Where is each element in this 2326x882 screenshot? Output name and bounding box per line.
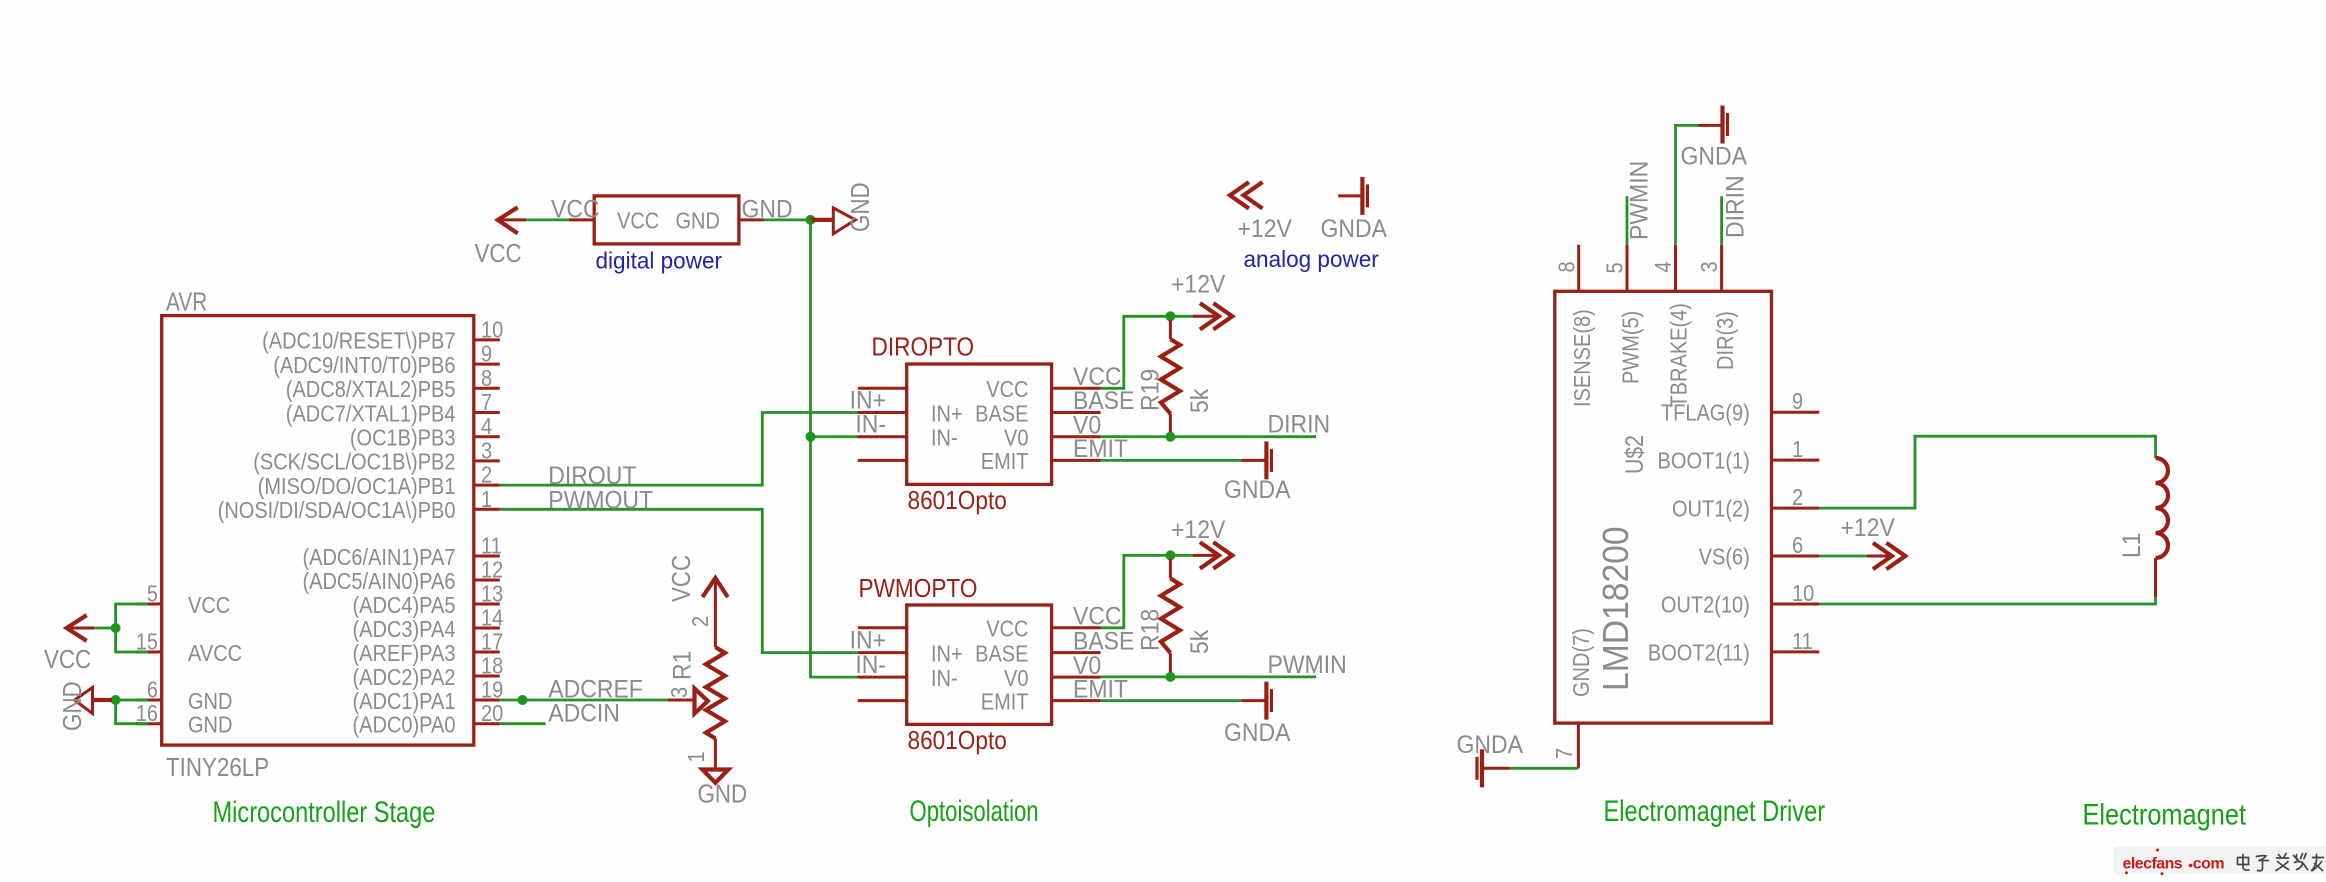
svg-text:(OC1B)PB3: (OC1B)PB3 <box>350 424 456 451</box>
svg-text:Microcontroller Stage: Microcontroller Stage <box>213 795 436 828</box>
svg-text:IN-: IN- <box>931 424 958 451</box>
svg-text:VCC: VCC <box>617 207 659 234</box>
svg-text:+12V: +12V <box>1238 215 1292 243</box>
svg-text:2: 2 <box>686 616 713 627</box>
svg-text:PWMIN: PWMIN <box>1268 651 1347 679</box>
svg-text:U$2: U$2 <box>1621 435 1649 474</box>
svg-text:GND: GND <box>698 780 748 809</box>
supply arrow +12V at PWMOPTO <box>1193 542 1232 568</box>
svg-text:(AREF)PA3: (AREF)PA3 <box>353 639 456 666</box>
wire GND from digital power <box>764 218 811 221</box>
U1 right pin stubs PA7..PA0 <box>474 556 500 724</box>
L1 bottom lead <box>2154 558 2157 597</box>
svg-text:com: com <box>2193 856 2225 873</box>
wire DIROPTO EMIT to GNDA <box>1101 459 1242 462</box>
svg-text:IN+: IN+ <box>931 400 963 427</box>
svg-text:R1: R1 <box>669 651 697 680</box>
digital power right pin stub <box>739 218 764 221</box>
svg-text:TBRAKE(4): TBRAKE(4) <box>1665 303 1692 407</box>
svg-text:EMIT: EMIT <box>981 688 1029 715</box>
R1 wiper arrow <box>695 689 708 714</box>
wire OUT2 to L1 bottom <box>1819 597 2155 604</box>
junction dot R19 bottom <box>1165 432 1175 442</box>
digital power left pin stub <box>569 218 594 221</box>
svg-text:+12V: +12V <box>1841 514 1895 542</box>
svg-text:14: 14 <box>481 604 503 631</box>
ground symbol GNDA top <box>1699 106 1728 144</box>
watermark logo antenna dots <box>2125 849 2164 876</box>
svg-text:Electromagnet: Electromagnet <box>2083 798 2247 831</box>
svg-text:9: 9 <box>481 340 492 367</box>
svg-text:GND: GND <box>188 711 232 738</box>
PWMOPTO right pin stubs <box>1052 628 1101 701</box>
svg-text:GNDA: GNDA <box>1457 731 1523 759</box>
supply arrow +12V at VS <box>1867 543 1905 569</box>
wire VCC to digital power <box>525 218 569 221</box>
wire DIRIN to pin 3 <box>1720 196 1723 245</box>
svg-text:6: 6 <box>1792 532 1803 559</box>
wire DIROUT net <box>500 413 858 486</box>
svg-text:DIRIN: DIRIN <box>1722 175 1750 238</box>
junction dot VCC bracket <box>111 623 121 633</box>
svg-text:3: 3 <box>666 687 693 698</box>
svg-text:IN+: IN+ <box>931 640 963 667</box>
svg-text:DIR(3): DIR(3) <box>1712 311 1739 370</box>
supply arrow VCC top <box>498 207 526 233</box>
svg-text:8601Opto: 8601Opto <box>908 487 1007 516</box>
wire VS to +12V <box>1819 555 1867 558</box>
svg-text:11: 11 <box>1792 628 1813 655</box>
svg-text:EMIT: EMIT <box>981 448 1029 475</box>
IC U$2 LMD18200 body <box>1555 291 1772 723</box>
svg-text:4: 4 <box>481 413 492 440</box>
PWMOPTO left pin stubs <box>858 628 907 701</box>
resistor R19 <box>1169 320 1172 339</box>
LMD right pin stubs <box>1772 412 1820 652</box>
wire GND7 to GNDA <box>1510 767 1578 770</box>
svg-text:4: 4 <box>1650 261 1677 272</box>
svg-text:VCC: VCC <box>986 615 1028 642</box>
svg-text:(ADC5/AIN0)PA6: (ADC5/AIN0)PA6 <box>302 567 455 594</box>
wire GND bracket pins 6,16 <box>116 700 148 724</box>
svg-text:(ADC0)PA0: (ADC0)PA0 <box>352 711 455 738</box>
svg-text:6: 6 <box>147 676 158 703</box>
svg-text:1: 1 <box>1792 436 1803 463</box>
ground symbol GNDA analog power <box>1338 177 1367 215</box>
svg-text:PWMOUT: PWMOUT <box>548 487 653 515</box>
svg-text:VCC: VCC <box>986 376 1028 403</box>
junction dot DIROPTO IN- branch <box>806 432 816 442</box>
supply arrow +12V analog power <box>1230 182 1263 208</box>
svg-text:BASE: BASE <box>975 400 1028 427</box>
R1 pin 3 stub <box>668 699 695 702</box>
svg-text:(SCK/SCL/OC1B\)PB2: (SCK/SCL/OC1B\)PB2 <box>253 448 455 475</box>
svg-text:DIRIN: DIRIN <box>1268 411 1331 439</box>
svg-text:OUT2(10): OUT2(10) <box>1661 591 1750 618</box>
svg-text:3: 3 <box>1696 261 1723 272</box>
svg-text:ISENSE(8): ISENSE(8) <box>1569 309 1596 407</box>
svg-text:7: 7 <box>1551 748 1578 759</box>
junction dot R19 top <box>1165 311 1175 321</box>
junction dot R18 bottom <box>1165 672 1175 682</box>
watermark elecfans.com logo <box>2123 856 2225 873</box>
resistor R18 <box>1169 559 1172 578</box>
U1 right pin stubs PB7..PB0 <box>474 340 500 509</box>
svg-text:(ADC4)PA5: (ADC4)PA5 <box>352 591 455 618</box>
wire PWMOPTO VCC to +12V <box>1101 555 1196 627</box>
wire DIROPTO VCC to +12V <box>1101 316 1196 388</box>
svg-text:R18: R18 <box>1137 609 1165 651</box>
svg-text:(ADC8/XTAL2)PB5: (ADC8/XTAL2)PB5 <box>286 376 456 403</box>
svg-text:VS(6): VS(6) <box>1699 543 1750 570</box>
svg-text:ADCIN: ADCIN <box>548 699 620 727</box>
svg-text:9: 9 <box>1792 388 1803 415</box>
junction dot ADCREF <box>518 695 528 705</box>
svg-text:12: 12 <box>481 556 503 583</box>
wire OUT1 to L1 top <box>1819 436 2155 508</box>
DIROPTO left pin stubs <box>858 388 907 460</box>
svg-text:(NOSI/DI/SDA/OC1A\)PB0: (NOSI/DI/SDA/OC1A\)PB0 <box>218 497 456 524</box>
svg-text:Optoisolation: Optoisolation <box>910 794 1039 828</box>
svg-text:7: 7 <box>481 389 492 416</box>
R1 pin 2 lead <box>714 582 717 648</box>
ground symbol GND right triangle <box>811 208 856 234</box>
svg-text:10: 10 <box>481 316 503 343</box>
svg-text:digital power: digital power <box>596 247 723 273</box>
ground symbol GNDA at PWMOPTO <box>1242 682 1272 720</box>
wire PWMIN to pin 5 <box>1626 196 1629 245</box>
wire DIRIN net <box>1101 435 1316 438</box>
svg-text:10: 10 <box>1792 580 1814 607</box>
inductor L1 coil <box>2156 458 2169 558</box>
svg-text:BOOT2(11): BOOT2(11) <box>1648 639 1750 666</box>
svg-text:18: 18 <box>481 652 503 679</box>
svg-text:GNDA: GNDA <box>1224 719 1290 747</box>
svg-text:(ADC7/XTAL1)PB4: (ADC7/XTAL1)PB4 <box>286 400 456 427</box>
wire VCC feed <box>93 627 116 630</box>
svg-text:GNDA: GNDA <box>1321 215 1387 243</box>
svg-text:TINY26LP: TINY26LP <box>166 753 269 782</box>
svg-text:GND: GND <box>676 207 720 234</box>
svg-text:8: 8 <box>481 364 492 391</box>
svg-text:GND: GND <box>58 681 87 731</box>
svg-text:8601Opto: 8601Opto <box>908 727 1007 756</box>
wire ADCREF net <box>500 699 668 702</box>
svg-text:5: 5 <box>147 580 158 607</box>
svg-text:VCC: VCC <box>475 239 522 268</box>
wire pin 4 to GNDA top <box>1676 125 1699 244</box>
U1 left pin stubs 5,15,6,16 <box>136 604 162 724</box>
svg-text:5k: 5k <box>1186 629 1214 654</box>
svg-text:+12V: +12V <box>1171 271 1225 299</box>
junction dot GND node <box>806 215 816 225</box>
R1 zigzag body <box>706 647 725 738</box>
supply block digital power body <box>594 196 739 244</box>
svg-text:5k: 5k <box>1186 388 1214 413</box>
svg-text:GND(7): GND(7) <box>1568 628 1595 697</box>
optocoupler DIROPTO body <box>907 364 1052 484</box>
svg-text:13: 13 <box>481 580 503 607</box>
svg-text:TFLAG(9): TFLAG(9) <box>1661 399 1750 426</box>
svg-text:11: 11 <box>481 532 502 559</box>
svg-text:5: 5 <box>1601 262 1628 273</box>
svg-text:(MISO/DO/OC1A)PB1: (MISO/DO/OC1A)PB1 <box>258 473 456 500</box>
svg-text:(ADC6/AIN1)PA7: (ADC6/AIN1)PA7 <box>302 543 455 570</box>
wire VCC bracket pins 5,15 <box>116 604 148 652</box>
R1 GND triangle <box>702 770 728 783</box>
svg-text:(ADC9/INT0/T0)PB6: (ADC9/INT0/T0)PB6 <box>273 352 455 379</box>
svg-text:V0: V0 <box>1004 424 1028 451</box>
svg-text:(ADC3)PA4: (ADC3)PA4 <box>352 615 455 642</box>
svg-text:(ADC1)PA1: (ADC1)PA1 <box>352 687 455 714</box>
wire PWMOUT net <box>500 509 858 652</box>
svg-text:GND: GND <box>742 196 793 224</box>
svg-text:LMD18200: LMD18200 <box>1596 526 1636 691</box>
svg-text:R19: R19 <box>1137 369 1165 411</box>
LMD bottom pin stub 7 <box>1577 723 1580 768</box>
supply arrow VCC left <box>67 615 94 641</box>
svg-text:(ADC10/RESET\)PB7: (ADC10/RESET\)PB7 <box>262 327 455 354</box>
svg-text:BASE: BASE <box>975 640 1028 667</box>
junction dot R18 top <box>1165 550 1175 560</box>
svg-text:1: 1 <box>481 485 492 512</box>
svg-text:DIROPTO: DIROPTO <box>872 333 975 362</box>
svg-text:8: 8 <box>1553 261 1580 272</box>
wire ADCIN net <box>500 722 546 725</box>
wire GND vertical to optos <box>811 220 859 677</box>
svg-text:3: 3 <box>481 437 492 464</box>
svg-text:VCC: VCC <box>44 645 91 674</box>
svg-text:analog power: analog power <box>1244 246 1380 272</box>
svg-text:PWM(5): PWM(5) <box>1617 311 1644 384</box>
svg-text:PWMIN: PWMIN <box>1625 161 1653 240</box>
wire branch to DIROPTO IN- <box>811 435 859 438</box>
svg-text:IN-: IN- <box>855 651 886 679</box>
svg-text:BOOT1(1): BOOT1(1) <box>1658 447 1750 474</box>
LMD top pin stubs 8,5,4,3 <box>1579 245 1722 292</box>
svg-text:L1: L1 <box>2118 532 2146 558</box>
junction dot GND bracket <box>111 695 121 705</box>
svg-text:Electromagnet Driver: Electromagnet Driver <box>1604 794 1826 827</box>
svg-text:GNDA: GNDA <box>1681 143 1747 171</box>
svg-text:IN-: IN- <box>931 665 958 692</box>
svg-text:(ADC2)PA2: (ADC2)PA2 <box>352 663 455 690</box>
svg-text:2: 2 <box>1792 484 1803 511</box>
watermark Chinese characters <box>2238 854 2324 871</box>
watermark background <box>2114 847 2326 875</box>
svg-text:GND: GND <box>846 182 875 232</box>
svg-text:PWMOPTO: PWMOPTO <box>859 575 978 604</box>
potentiometer R1 <box>703 578 728 597</box>
svg-text:1: 1 <box>683 751 710 762</box>
svg-text:AVCC: AVCC <box>188 639 242 666</box>
wire PWMOPTO EMIT to GNDA <box>1101 699 1242 702</box>
DIROPTO right pin stubs <box>1052 388 1101 460</box>
svg-text:GND: GND <box>188 687 232 714</box>
svg-text:2: 2 <box>481 461 492 488</box>
wire PWMIN net <box>1101 676 1316 679</box>
ground symbol GNDA at DIROPTO <box>1242 441 1272 479</box>
svg-text:IN-: IN- <box>855 411 886 439</box>
svg-text:VCC: VCC <box>667 555 696 602</box>
svg-text:OUT1(2): OUT1(2) <box>1672 495 1750 522</box>
ground symbol GND left triangle <box>75 688 113 714</box>
ground symbol GNDA bottom left <box>1477 749 1510 787</box>
svg-text:VCC: VCC <box>551 196 600 224</box>
svg-text:+12V: +12V <box>1171 516 1225 544</box>
svg-text:elecfans: elecfans <box>2123 856 2183 873</box>
svg-text:GNDA: GNDA <box>1224 476 1290 504</box>
svg-text:AVR: AVR <box>166 287 207 316</box>
IC U1 AVR TINY26LP body <box>162 316 474 745</box>
svg-text:17: 17 <box>481 628 503 655</box>
supply arrow +12V at DIROPTO <box>1193 303 1232 329</box>
R1 pin 1 lead <box>714 738 717 769</box>
svg-text:VCC: VCC <box>188 591 230 618</box>
optocoupler PWMOPTO body <box>907 605 1052 724</box>
